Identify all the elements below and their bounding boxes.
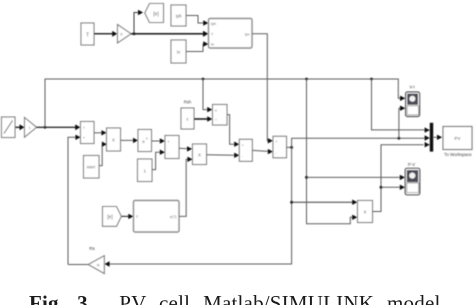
wire Iph to model in1 [186,16,208,26]
wire branch to goto [134,10,143,34]
wire c to divide in2 [194,116,212,121]
svg-text:-: - [242,155,243,159]
wire gain2 to model block in2 [131,31,208,37]
svg-text:e: e [142,139,145,144]
svg-text:÷: ÷ [215,118,217,122]
gain2 triangle [118,25,132,44]
svg-text:-: - [276,151,277,155]
wire B out to exp [121,138,139,143]
wire divide out to sum E in1 [227,115,239,147]
svg-text:-: - [168,151,169,155]
svg-text:To Workspace: To Workspace [444,152,472,157]
constant T [81,23,94,45]
wire I down to bottom rail and Rs gain [104,147,291,266]
subsystem U1 (PV current model) [209,19,253,49]
node V to PV scope [305,176,308,179]
wire I branch to product X in1 [292,200,358,205]
divide block [213,105,228,126]
mux [430,123,433,152]
wire Io to model in3 [186,41,208,51]
svg-text:Rs: Rs [89,246,95,251]
svg-text:PV: PV [454,136,461,141]
wire U2 out up to product D in2 [179,157,193,217]
svg-text:+: + [276,140,278,144]
wire sum E to sum F in2 [252,149,273,154]
wire X out up to mux in3 [373,142,430,212]
svg-text:Iph: Iph [176,14,182,19]
wire one to sum C in2 [152,150,165,170]
constant Iph [171,5,186,26]
node I to VI scope [398,137,401,140]
wire product D to sum E in2 [207,153,240,158]
wire rail down to divide in1 [203,79,212,112]
node I split [290,146,293,149]
svg-text:c: c [186,117,188,122]
gain1 triangle [25,118,37,138]
arrow into VI scope in1 [400,96,405,101]
wire V vertical x306 down to product X in2 [307,79,358,224]
node rail to x306 vertical [305,78,308,81]
svg-text:e(T): e(T) [170,215,177,219]
svg-text:X: X [112,138,115,143]
wire V branch to PV scope in1 [307,175,406,180]
wire I up to VI scope in2 [399,106,406,139]
ramp source R [2,117,16,138]
svg-text:T: T [86,33,89,39]
to-workspace PV [443,127,472,150]
wire from-tag to fcn block [121,214,133,219]
svg-text:1: 1 [29,126,31,130]
wire sum C to product D [179,146,192,151]
svg-text:+: + [168,140,170,144]
wire V rail up and across top [45,79,401,127]
sum E [239,139,252,161]
svg-text:Ipv: Ipv [245,32,250,36]
wire A out to product B [94,130,107,135]
caption Fig. 3 [29,293,474,305]
wire gain1 to sum A [37,124,81,130]
node rail to x371 vertical [370,78,373,81]
node P to PV scope [380,186,383,189]
scope V-I [406,92,420,117]
wire T to gain2 [94,31,117,37]
svg-text:Io: Io [211,43,214,47]
svg-text:+: + [242,144,244,148]
wire ramp to gain1 [16,124,25,130]
scope P-V [405,168,420,195]
svg-text:X: X [364,210,367,215]
node I to product X in1 [290,201,293,204]
node rail to divide [202,78,205,81]
goto tag [e] [145,4,164,23]
wire F out (current I) [287,146,292,148]
wire U1 out down to sum F in1 [252,34,273,144]
subsystem U2 e(T) [134,201,180,233]
wire I up and right to mux in2 [292,138,426,147]
svg-text:RINT: RINT [87,166,97,170]
svg-text:+: + [83,136,85,140]
math exp block [138,130,152,152]
product X (power) [358,201,373,223]
svg-text:+: + [83,126,85,130]
wire feedback into A in2 [68,135,81,265]
node goto branch [133,32,136,35]
sum C [165,136,179,159]
svg-text:X: X [198,153,201,158]
svg-text:V-I: V-I [409,85,414,90]
svg-text:x: x [215,109,217,113]
constant c (Rsh) [181,108,194,129]
constant RINT [84,156,100,179]
wire Rs out left and up [68,264,88,266]
from tag [e] [103,207,122,227]
gain Rs (points left) [88,256,104,274]
svg-text:[e]: [e] [107,215,113,221]
svg-text:Iph: Iph [211,22,216,26]
constant Io [171,40,186,63]
wire mux to workspace [433,135,442,140]
arrow into mux in2 [425,135,430,140]
constant one [138,159,153,182]
wire RINT to B in2 [99,142,107,166]
node V branch on gain1 output [44,126,47,129]
svg-text:1: 1 [144,169,147,174]
svg-text:P-V: P-V [408,162,415,167]
product B [107,128,121,151]
sum A [81,122,95,144]
sum F [273,136,287,158]
svg-text:[e]: [e] [153,12,159,18]
wire exp to sum C [152,138,166,143]
wire V vertical x371 to mux in1 [372,79,430,133]
svg-text:u: u [146,137,148,141]
product D [193,144,207,165]
wire P branch to PV scope in2 [381,185,405,190]
svg-text:Rsh: Rsh [184,100,192,105]
